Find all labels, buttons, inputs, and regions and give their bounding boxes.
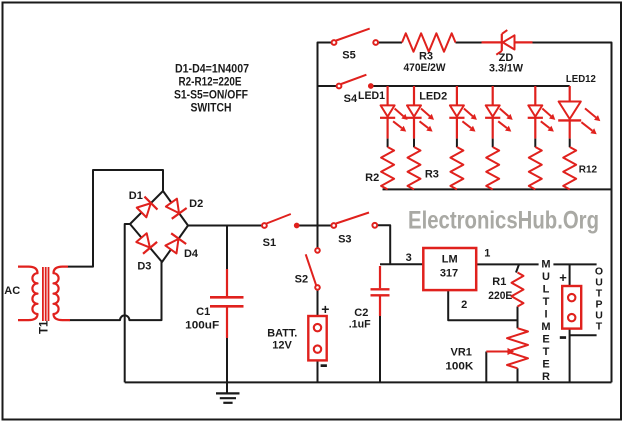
svg-text:+: + — [559, 270, 567, 285]
wire: S2 to battery positive — [317, 290, 319, 316]
wire: output negative stub — [570, 334, 597, 336]
resistor R6 220E — [450, 147, 463, 189]
wire: R3 to zener ZD — [456, 42, 482, 44]
svg-text:BATT.: BATT. — [267, 328, 297, 340]
svg-text:T: T — [596, 321, 603, 333]
svg-text:D4: D4 — [184, 248, 199, 260]
LED LED2 — [406, 86, 447, 139]
svg-text:E: E — [542, 358, 549, 370]
wire: LED cathode stub — [534, 139, 536, 148]
switch S3 — [331, 213, 377, 246]
svg-text:LM: LM — [442, 254, 458, 266]
switch S1 — [262, 214, 299, 249]
svg-text:R1: R1 — [492, 276, 506, 288]
transformer T1 primary winding with AC leads — [18, 267, 38, 321]
wire: transformer secondary top to bridge top vertex — [68, 170, 164, 267]
resistor R10 220E — [529, 147, 542, 189]
svg-text:S4: S4 — [344, 93, 358, 105]
svg-text:M: M — [541, 321, 550, 333]
svg-text:2: 2 — [461, 299, 467, 311]
wire: positive node branch down to C1 — [226, 226, 228, 271]
wire: multimeter positive lead — [569, 264, 571, 286]
svg-text:R2-R12=220E: R2-R12=220E — [179, 74, 242, 88]
multimeter M across output — [539, 258, 582, 383]
output terminals OUTPUT — [595, 266, 603, 333]
svg-text:S1: S1 — [263, 237, 276, 249]
resistor R3 470E/2W — [402, 33, 456, 74]
LED LED5 — [528, 86, 556, 139]
svg-text:3: 3 — [406, 252, 412, 264]
svg-text:LED1: LED1 — [358, 90, 385, 102]
resistor R8 220E — [486, 147, 499, 189]
svg-text:I: I — [544, 308, 547, 320]
LED LED4 — [485, 86, 513, 139]
LED LED1 — [358, 86, 408, 139]
svg-text:C1: C1 — [196, 306, 210, 318]
svg-text:220E: 220E — [488, 290, 512, 302]
wire: bottom ground rail — [125, 381, 612, 383]
wire: bridge positive node to S1 (junction at C1) — [188, 225, 262, 227]
svg-text:100uF: 100uF — [185, 320, 219, 332]
switch S4 — [337, 75, 373, 105]
resistor R2 220E — [365, 147, 394, 189]
svg-text:D3: D3 — [137, 260, 151, 272]
wire: S1 to S3 across trunk junction — [297, 225, 332, 227]
svg-text:T1: T1 — [39, 320, 51, 334]
resistor R1 220E — [488, 273, 523, 307]
svg-text:R2: R2 — [365, 172, 379, 184]
wire: ZD to right-side rail down to ground rail — [533, 43, 612, 383]
capacitor C1 100uF — [185, 269, 243, 338]
svg-text:R3: R3 — [419, 50, 433, 62]
zener diode ZD 3.3/1W — [482, 30, 533, 74]
svg-text:R: R — [542, 371, 550, 383]
wire: multimeter negative lead down to ground rail — [569, 329, 571, 383]
annotation: parts list — [174, 62, 249, 115]
potentiometer VR1 100K — [445, 328, 528, 372]
switch S5 — [332, 29, 379, 62]
wire: battery negative to ground rail — [317, 360, 319, 382]
resistor R3 220E — [408, 147, 439, 189]
wire: LM317 ADJ pin 2 to R1/VR1 junction — [448, 290, 517, 320]
diode D1 — [129, 190, 158, 219]
svg-text:3.3/1W: 3.3/1W — [489, 62, 524, 74]
svg-text:S3: S3 — [338, 233, 351, 245]
wire: C1 negative lead to ground rail and earth — [226, 337, 228, 393]
svg-text:SWITCH: SWITCH — [191, 101, 232, 115]
svg-text:D2: D2 — [189, 198, 203, 210]
svg-text:317: 317 — [440, 268, 458, 280]
wire: S3 down to LM317 input node — [377, 225, 390, 264]
wire: bridge rectifier diamond arms — [130, 191, 188, 262]
resistor R12 220E — [563, 147, 597, 189]
wire: C2 negative lead to ground rail — [379, 315, 381, 382]
svg-text:VR1: VR1 — [450, 346, 471, 358]
svg-text:D1: D1 — [129, 190, 143, 202]
svg-text:470E/2W: 470E/2W — [404, 62, 447, 74]
svg-text:ElectronicsHub.Org: ElectronicsHub.Org — [408, 207, 599, 235]
svg-text:M: M — [541, 258, 550, 270]
regulator U1 LM317 — [423, 248, 476, 290]
svg-text:E: E — [542, 333, 549, 345]
wire: R1 bottom to VR1 top — [517, 307, 519, 329]
wire: main trunk from S5 feed down to S2 — [318, 43, 332, 249]
capacitor C2 .1uF — [349, 266, 390, 331]
wire: LED anode rail — [371, 85, 570, 87]
transformer T1 secondary winding — [54, 267, 71, 321]
wire: bridge negative vertex down to ground rail — [125, 224, 130, 382]
ground — [216, 393, 240, 402]
switch S2 — [295, 248, 320, 290]
svg-text:T: T — [543, 296, 550, 308]
wire: transformer secondary bottom to bridge bottom vertex (hop over negative rail) — [70, 262, 162, 320]
wire: trunk to switch S4 — [318, 85, 337, 87]
wire: VR1 bottom to ground rail — [517, 368, 519, 382]
svg-text:R12: R12 — [579, 165, 598, 176]
wire: C2 node to LM317 pin 3 — [380, 263, 423, 265]
LED LED3 — [449, 86, 477, 139]
wire: LED cathode stub — [456, 139, 458, 148]
battery BATT. 12V — [267, 301, 329, 367]
svg-text:U: U — [542, 271, 550, 283]
svg-text:1: 1 — [484, 247, 490, 259]
svg-text:C2: C2 — [354, 307, 368, 319]
svg-text:.1uF: .1uF — [349, 319, 371, 331]
svg-text:+: + — [321, 301, 329, 317]
diode D2 — [164, 197, 203, 219]
wire: LED cathode stub — [569, 139, 571, 148]
svg-text:S5: S5 — [342, 50, 355, 62]
svg-text:S2: S2 — [295, 273, 308, 285]
svg-text:R3: R3 — [425, 169, 439, 181]
svg-text:T: T — [543, 346, 550, 358]
wire: LED cathode stub — [387, 139, 389, 148]
LED LED12 — [558, 74, 600, 138]
svg-text:AC: AC — [4, 285, 20, 297]
wire: VR1 wiper to ground rail — [485, 352, 487, 383]
wire: LED cathode stub — [492, 139, 494, 148]
diode D4 — [163, 233, 198, 260]
diode D3 — [134, 232, 157, 273]
transformer T1 core — [43, 267, 49, 321]
wire: LED cathode stub — [413, 139, 415, 148]
wire: output node down to R1 — [516, 264, 519, 272]
svg-text:LED12: LED12 — [566, 74, 596, 85]
wire: LED cathode rail — [383, 188, 612, 190]
wire: S5 to R3 — [378, 42, 402, 44]
svg-text:100K: 100K — [445, 360, 473, 372]
svg-text:L: L — [543, 283, 550, 295]
svg-text:LED2: LED2 — [419, 90, 447, 102]
svg-text:12V: 12V — [272, 340, 292, 352]
wire: LM317 output pin 1 to output terminal — [476, 263, 596, 265]
